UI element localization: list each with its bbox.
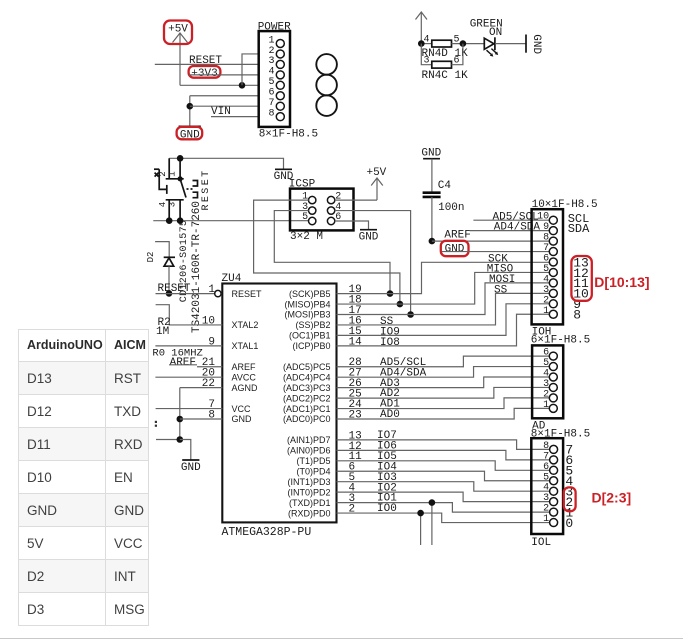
resistor R2 1M labels [156, 317, 171, 338]
wire XTAL1 pin9 stub [155, 345, 222, 347]
svg-text:8: 8 [543, 233, 549, 244]
junction diode to RESET wire [166, 290, 173, 297]
diode D2 on RESET net [146, 242, 175, 294]
wire ICSP pin4 MOSI route [335, 211, 411, 315]
IOH pin 5 [543, 264, 557, 277]
wire pin6 down to GND [189, 96, 191, 126]
wire AD5/SCL: IC pin28 to AD pin6 [337, 356, 550, 367]
wire +5V to RN4D [421, 43, 432, 45]
svg-text:IO8: IO8 [380, 337, 400, 349]
wire IO1: IC to IOL pin2 [337, 503, 550, 512]
svg-text:3: 3 [167, 202, 177, 207]
wire RESET to POWER pin3 [155, 63, 259, 65]
svg-text:3: 3 [543, 379, 549, 390]
junction MOSI at IC pin17 wire [407, 311, 414, 318]
svg-text:GND: GND [232, 414, 253, 424]
junction IO0 tap [417, 510, 424, 517]
svg-text:5: 5 [268, 77, 274, 88]
AD pin 3 [543, 379, 557, 392]
svg-text:GND: GND [359, 232, 379, 244]
svg-text:6: 6 [543, 254, 549, 265]
pushbutton S1 RESET (TS42031) [154, 158, 212, 220]
svg-text:4: 4 [543, 369, 549, 380]
ground symbol GND at ICSP pin6 [359, 230, 379, 244]
IOL pin 6 [543, 462, 557, 475]
junction POWER pin7 net [187, 103, 194, 110]
svg-text:(TXD)PD1: (TXD)PD1 [289, 498, 331, 508]
svg-text:D[2:3]: D[2:3] [592, 489, 632, 505]
svg-text:5: 5 [543, 264, 549, 275]
svg-text:(INT1)PD3: (INT1)PD3 [287, 477, 330, 487]
svg-text:(SCK)PB5: (SCK)PB5 [289, 289, 331, 299]
wire AD3: IC pin26 to AD pin4 [337, 377, 550, 388]
wire POWER pin2 branch [242, 54, 259, 85]
IOH pin 1 [543, 306, 557, 319]
svg-text:4: 4 [543, 274, 549, 285]
svg-text:2: 2 [268, 46, 274, 57]
svg-text:3: 3 [543, 493, 549, 504]
wire IO8: IC pin14 to IOH pin1 [337, 314, 550, 346]
svg-text:RN4C 1K: RN4C 1K [422, 70, 469, 82]
net label +3V3 (red highlight) [189, 66, 221, 80]
svg-text:(T1)PD5: (T1)PD5 [296, 456, 330, 466]
IOH pin 9 [543, 222, 557, 235]
ICSP pin 1 [302, 191, 316, 204]
junction button pin4 [166, 217, 173, 224]
svg-text:(AIN1)PD7: (AIN1)PD7 [287, 435, 331, 445]
wire +5V to POWER pin5 [180, 84, 259, 86]
connector AD 6x1F-H8.5 [531, 334, 590, 418]
power flag +5V (red highlight) [164, 21, 192, 86]
IOH pin 6 [543, 254, 557, 267]
ICSP pin 6 [327, 212, 341, 225]
svg-text:1: 1 [543, 400, 549, 411]
IOH pin 4 [543, 274, 557, 287]
wire IO2: IC to IOL pin3 [337, 492, 550, 502]
ICSP pin 3 [302, 202, 316, 215]
svg-text:3×2 M: 3×2 M [290, 231, 323, 243]
wire +3V3 to POWER pin4 [189, 74, 259, 76]
IOL right digital labels 7-0 with red D[2:3] highlight [564, 443, 576, 531]
IOL pin 8 [543, 441, 557, 454]
svg-text:AD0: AD0 [380, 409, 400, 421]
wire IO9: IC pin15 to IOH pin2 [337, 304, 550, 336]
svg-text:AREF: AREF [170, 357, 196, 369]
svg-text:(ADC0)PC0: (ADC0)PC0 [283, 414, 331, 424]
IOH right digital labels 13-8 with red D[10:13] highlight [571, 255, 591, 322]
wire AGND pin22 [180, 387, 223, 389]
IC pin1 stub [221, 293, 222, 295]
wire LED to GND [495, 43, 526, 45]
wire stub AD4/SDA to IOH pin9 [470, 230, 550, 232]
leftover dots behind table [155, 421, 157, 423]
wire GND junction to ground symbol [180, 440, 191, 460]
wire IO3: IC to IOL pin4 [337, 482, 550, 492]
svg-text:(ICP)PB0: (ICP)PB0 [292, 341, 330, 351]
svg-text:+5V: +5V [168, 24, 188, 36]
IC left pin number labels [202, 284, 216, 421]
junction on +5V net [239, 82, 246, 89]
IOH right labels SCL SDA [568, 212, 590, 236]
svg-text:(OC1)PB1: (OC1)PB1 [289, 331, 331, 341]
IOH pin 7 [543, 243, 557, 256]
svg-text:(INT0)PD2: (INT0)PD2 [287, 487, 330, 497]
POWER pin 3 [268, 56, 284, 68]
svg-text:RESET: RESET [232, 289, 263, 299]
wire SCK: IC pin19 to IOH pin6 [337, 262, 550, 293]
svg-text:4: 4 [268, 67, 274, 78]
resistor RN4D 1K [422, 35, 469, 60]
svg-text:GND: GND [445, 243, 465, 255]
wire AREF to IOH pin8 [432, 240, 550, 242]
IOH pin 8 [543, 233, 557, 246]
svg-text:(ADC1)PC1: (ADC1)PC1 [283, 404, 331, 414]
tap wire on IO1 (serial) [431, 503, 433, 545]
ICSP pin 5 [302, 212, 316, 225]
IOH pin 3 [543, 285, 557, 298]
junction IO1 tap [429, 499, 436, 506]
svg-text:2: 2 [349, 503, 356, 515]
svg-text:6: 6 [543, 462, 549, 473]
svg-text:9: 9 [543, 222, 549, 233]
svg-text:7: 7 [543, 451, 549, 462]
AD pin 2 [543, 389, 557, 402]
IOL pin 2 [543, 504, 557, 516]
junction C4 at AREF wire [429, 238, 436, 245]
wire AD0: IC pin23 to AD pin1 [337, 408, 550, 419]
junction left of RN4D [418, 40, 425, 47]
POWER pin 2 [268, 46, 284, 58]
POWER pin 4 [268, 67, 284, 79]
svg-text:2: 2 [543, 389, 549, 400]
wire AREF pin21 stub [169, 364, 197, 366]
wire ICSP pin3 SCK route [274, 211, 390, 294]
POWER pin 1 [268, 35, 284, 47]
svg-text:1: 1 [167, 171, 177, 176]
svg-text:4: 4 [423, 35, 429, 46]
IOH pin 10 [537, 212, 557, 225]
svg-text:(SS)PB2: (SS)PB2 [295, 320, 330, 330]
svg-text:4: 4 [543, 483, 549, 494]
ICSP pin 2 [327, 191, 341, 204]
junction SCK at IC pin19 wire [387, 290, 394, 297]
resistor RN4C 1K (parallel) [421, 44, 468, 82]
svg-text:1: 1 [543, 306, 549, 317]
wire POWER pin7 [190, 105, 259, 107]
svg-text:5: 5 [543, 472, 549, 483]
POWER pin 7 [268, 98, 284, 110]
wire AD1: IC pin24 to AD pin2 [337, 398, 550, 409]
wire VIN to POWER pin8 [211, 116, 259, 118]
IOL pin 5 [543, 472, 557, 485]
wire RESET to IC pin1 [156, 293, 215, 295]
mounting hole circles [316, 54, 337, 116]
wire AVCC pin20 stub [155, 376, 222, 378]
svg-text:+5V: +5V [366, 167, 386, 179]
svg-text:2: 2 [543, 295, 549, 306]
power arrow +5V at LED network [416, 12, 428, 44]
wire button top to GND symbol [169, 158, 283, 169]
wire POWER pin6 [190, 95, 259, 97]
svg-text:(ADC2)PC2: (ADC2)PC2 [283, 393, 331, 403]
ground symbol GND (red highlight) below +5V area [177, 126, 203, 141]
svg-text:AGND: AGND [232, 383, 259, 393]
capacitor C4 100n [423, 180, 465, 214]
AD pin 4 [543, 369, 557, 382]
svg-text:8: 8 [543, 441, 549, 452]
svg-text:VCC: VCC [232, 404, 252, 414]
IC left pin name labels [232, 289, 263, 424]
wire AGND down to GND [179, 388, 181, 440]
svg-text:6: 6 [268, 88, 274, 99]
svg-text:(AIN0)PD6: (AIN0)PD6 [287, 446, 331, 456]
IOL pin 1 [543, 514, 557, 527]
junction button pin3 [177, 217, 184, 224]
svg-text:(RXD)PD0: (RXD)PD0 [288, 508, 331, 518]
POWER pin 8 [268, 108, 284, 120]
AD pin 6 [543, 348, 557, 361]
wire GND to C4 [431, 159, 433, 192]
svg-text:(MISO)PB4: (MISO)PB4 [284, 299, 330, 309]
junction GND pin8 [177, 416, 184, 423]
wire MOSI: IC pin17 to IOH pin4 [337, 283, 550, 315]
IOL pin 3 [543, 493, 557, 506]
ground symbol GND above C4 [421, 147, 441, 159]
svg-text:(ADC4)PC4: (ADC4)PC4 [283, 372, 331, 382]
svg-text:1M: 1M [156, 326, 169, 338]
svg-text:AREF: AREF [232, 362, 257, 372]
IC right pin number labels [349, 284, 363, 515]
svg-text:3: 3 [268, 56, 274, 67]
inversion bubble IC pin1 [215, 290, 221, 296]
svg-text:IOL: IOL [531, 537, 551, 549]
svg-text:(MOSI)PB3: (MOSI)PB3 [284, 310, 330, 320]
svg-text:5: 5 [543, 358, 549, 369]
net label GND (red highlight) at IOH pin7 [441, 241, 469, 256]
wire AD4/SDA: IC pin27 to AD pin5 [337, 367, 550, 378]
svg-text:IO0: IO0 [377, 503, 397, 515]
wire IO7: IC to IOL pin8 [337, 440, 550, 450]
svg-text:8: 8 [268, 108, 274, 119]
svg-text:XTAL1: XTAL1 [232, 341, 259, 351]
svg-text:ATMEGA328P-PU: ATMEGA328P-PU [222, 526, 312, 539]
junction right of RN4D [460, 40, 467, 47]
svg-text:6: 6 [543, 348, 549, 359]
junction button pin1 top [177, 155, 184, 162]
ground bar GND (rotated) at LED [526, 34, 542, 54]
svg-text:GND: GND [181, 462, 201, 474]
tap wire on IO0 (serial) [420, 513, 422, 545]
connector IOH 10x1F-H8.5 [532, 199, 598, 325]
power arrow +5V at ICSP [366, 167, 386, 200]
wire ICSP pin2 to +5V [335, 199, 377, 201]
POWER pin 5 [268, 77, 284, 89]
IC ZU4 ATMEGA328P-PU body [222, 273, 337, 539]
wire IO4: IC to IOL pin5 [337, 471, 550, 481]
wire RN4D to LED node [452, 43, 485, 45]
wire IO5: IC to IOL pin6 [337, 461, 550, 471]
wire ICSP pin6 to GND [335, 221, 369, 229]
bottom page border line [0, 638, 683, 639]
svg-text:GND: GND [421, 147, 441, 159]
svg-text:(ADC5)PC5: (ADC5)PC5 [283, 362, 331, 372]
svg-text:100n: 100n [438, 202, 464, 214]
svg-text:3: 3 [543, 285, 549, 296]
connector IOL 8x1F-H8.5 [531, 438, 563, 534]
svg-text:GND: GND [530, 34, 542, 54]
svg-text:5: 5 [302, 212, 308, 223]
wire MISO: IC pin18 to IOH pin5 [337, 272, 550, 304]
ground symbol GND near ICSP [274, 169, 294, 183]
LED GREEN ON [470, 19, 503, 57]
svg-text:D[10:13]: D[10:13] [594, 274, 649, 290]
svg-text:C4: C4 [438, 180, 452, 192]
connector ICSP 3x2 M [289, 178, 354, 230]
AD pin 5 [543, 358, 557, 371]
svg-text:1: 1 [208, 284, 215, 296]
svg-text:D2: D2 [146, 252, 156, 263]
wire RESET net horizontal to ICSP pin5 [153, 220, 308, 222]
IOL pin 7 [543, 451, 557, 464]
wire IO6: IC to IOL pin7 [337, 450, 550, 460]
IOL pin 4 [543, 483, 557, 496]
svg-text:AD4/SDA: AD4/SDA [494, 222, 541, 234]
wire AD2: IC pin25 to AD pin3 [337, 387, 550, 398]
svg-text:SS: SS [494, 285, 508, 297]
ground symbol GND below IC left [181, 460, 201, 474]
pin mapping table ArduinoUNO/AICM [18, 329, 149, 627]
svg-text:ON: ON [489, 27, 502, 39]
wire C4 to AREF net [431, 197, 433, 241]
wire IO0: IC to IOL pin1 [337, 513, 550, 523]
svg-text:(ADC3)PC3: (ADC3)PC3 [283, 383, 331, 393]
svg-text:SDA: SDA [568, 222, 590, 236]
svg-text:10: 10 [537, 212, 549, 223]
IC right pin name labels [283, 289, 331, 518]
ICSP pin 4 [327, 202, 341, 215]
wire stub left at GND junction [156, 439, 180, 441]
svg-text:XTAL2: XTAL2 [232, 320, 259, 330]
svg-text:2: 2 [543, 504, 549, 515]
svg-text:8×1F-H8.5: 8×1F-H8.5 [259, 128, 318, 140]
connector POWER 8x1F-H8.5 [258, 22, 291, 127]
wire SS: IC pin16 to IOH pin3 [337, 293, 550, 325]
wire GND stub to IOH pin7 [442, 251, 550, 253]
svg-text:0: 0 [565, 516, 573, 531]
svg-text:7: 7 [543, 243, 549, 254]
wire ICSP pin1 MISO route [254, 200, 400, 304]
svg-text:(T0)PD4: (T0)PD4 [296, 466, 330, 476]
POWER pin 6 [268, 88, 284, 100]
wire stub AD5/SCL to IOH pin10 [473, 219, 549, 221]
svg-text:1: 1 [268, 35, 274, 46]
IOH pin 2 [543, 295, 557, 308]
svg-text:8: 8 [573, 308, 581, 323]
svg-text:AVCC: AVCC [232, 372, 257, 382]
wire VCC pin7 stub [156, 408, 223, 410]
AD pin 1 [543, 400, 557, 413]
junction GND net bottom [177, 436, 184, 443]
svg-text:1: 1 [543, 514, 549, 525]
junction MISO at IC pin18 wire [397, 301, 404, 308]
wire XTAL2 pin10 with R2 corner [156, 305, 223, 325]
wire GND pin8 [180, 418, 223, 420]
svg-text:7: 7 [268, 98, 274, 109]
